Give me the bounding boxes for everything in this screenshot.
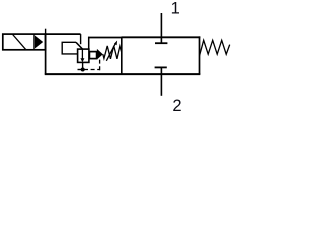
- right square top edge: [122, 36, 201, 38]
- port 2 blocking T-bar: [155, 66, 167, 68]
- dashed pilot line (vertical run up to spring): [99, 59, 101, 70]
- valve body outline: left edge: [45, 33, 47, 74]
- left square top edge (right portion): [88, 37, 122, 39]
- regulator internal down-arrow head: [80, 58, 84, 62]
- return spring (right, zigzag): [200, 40, 230, 55]
- small flow triangle (filled, pointing right): [97, 49, 103, 60]
- valve body outline: bottom edge: [45, 73, 201, 75]
- svg-text:2: 2: [172, 97, 181, 111]
- solenoid proportional diagonal: [13, 35, 26, 50]
- right edge of body: [199, 36, 201, 74]
- regulator internal down-arrow shaft: [81, 50, 83, 60]
- svg-text:1: 1: [171, 0, 180, 18]
- adjustment arrow shaft across internal spring: [106, 43, 115, 60]
- junction node (dot): [81, 68, 85, 72]
- divider between squares: [121, 37, 123, 74]
- regulator box right-edge riser up to top edge: [88, 37, 90, 50]
- regulator box U1: [78, 49, 89, 62]
- regulator pilot bracket (stepped line into box left side): [62, 42, 77, 54]
- chamfer diagonal into regulator arrow: [76, 42, 83, 49]
- pilot vent stub above body top-left corner: [45, 29, 47, 35]
- port 2 blocked stub: [160, 67, 162, 74]
- left square top edge (partial): [45, 33, 81, 35]
- adjustment arrow head: [114, 41, 117, 46]
- dashed pilot line (horizontal run): [84, 69, 100, 71]
- port 2 connection line (external, bottom): [160, 74, 162, 96]
- port 1 blocking T-bar: [155, 42, 167, 44]
- port 1 connection line (external, top): [160, 13, 162, 38]
- solenoid actuation triangle (filled, pointing right): [35, 36, 43, 49]
- port 1 blocked stub: [160, 37, 162, 43]
- solenoid internal divider: [33, 34, 35, 50]
- pilot drop line from top edge: [80, 34, 82, 44]
- stub left of junction: [78, 69, 83, 71]
- internal spring (zigzag with adjustment arrow): [103, 46, 122, 59]
- line from regulator box bottom to junction: [82, 63, 84, 70]
- nozzle rectangle on regulator output: [89, 52, 96, 59]
- solenoid Y1 (proportional solenoid box): [3, 34, 46, 50]
